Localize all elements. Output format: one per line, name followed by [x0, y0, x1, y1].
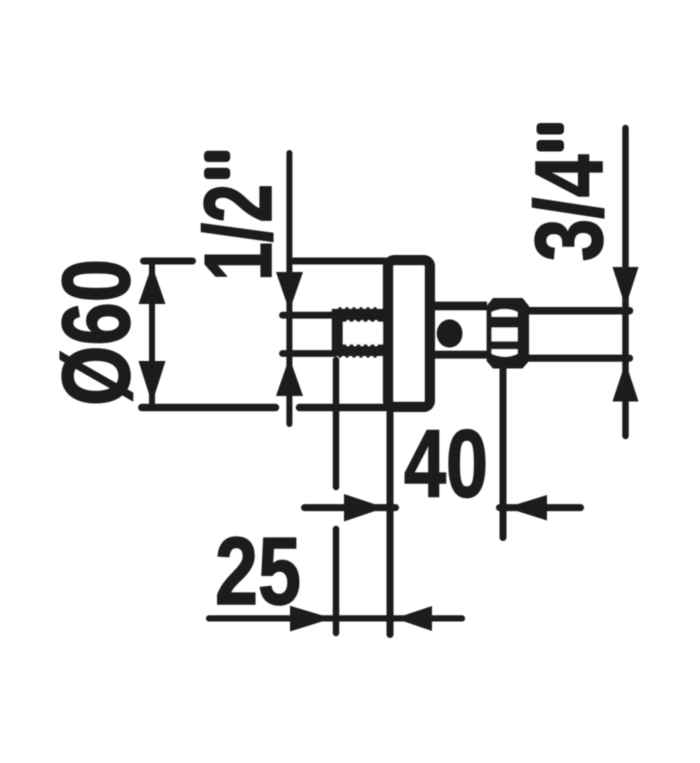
dim 40 extension line nut — [500, 369, 507, 538]
thread crest bumps — [338, 307, 377, 358]
svg-text:40: 40 — [404, 411, 488, 518]
dim 1/2" arrow down — [276, 272, 303, 311]
body shaft bottom line — [435, 351, 487, 359]
svg-text:Ø60: Ø60 — [43, 259, 150, 406]
dim 40 dimension line right — [500, 504, 581, 511]
dim 1/2" arrow up — [276, 358, 303, 397]
dim 1/2" dimension line — [286, 153, 292, 424]
dim 25 dimension line left — [209, 615, 462, 621]
label 3/4 inch ticks — [537, 123, 565, 135]
dim 40 arrow left — [506, 495, 547, 521]
dim Ø60 arrow down — [139, 361, 166, 404]
dim 1/2" extension line bottom — [283, 350, 336, 357]
dim 25 extension line pipe end seg2 — [333, 529, 340, 633]
dim Ø60 dimension line — [149, 263, 155, 405]
dim 1/2" extension line top — [283, 312, 336, 319]
dim Ø60 extension line top seg2 — [294, 258, 385, 265]
dim 40 extension line flange face — [387, 412, 394, 635]
svg-text:1/2: 1/2 — [185, 184, 292, 281]
outlet pipe top line 3/4" — [529, 307, 630, 315]
dim 40 arrow right — [344, 494, 385, 522]
label 1/2 inch ticks — [204, 151, 230, 162]
body shaft top line — [435, 302, 487, 311]
dim 40 dimension line left — [305, 504, 396, 511]
dim Ø60 extension line top seg1 — [144, 258, 193, 265]
svg-text:25: 25 — [215, 518, 301, 625]
outlet pipe bottom line — [529, 355, 630, 362]
svg-text:3/4: 3/4 — [516, 155, 623, 262]
fixing hole dot — [437, 319, 463, 347]
dim 25 extension line pipe end seg1 — [333, 360, 340, 487]
dim 3/4" dimension line — [622, 128, 629, 436]
dim 25 arrow right — [290, 606, 332, 632]
dim Ø60 arrow up — [139, 265, 166, 304]
threaded inlet pipe 1/2" — [332, 309, 383, 356]
wall flange — [388, 260, 430, 407]
nut — [487, 298, 529, 369]
dim Ø60 extension line bottom seg1 — [142, 404, 276, 412]
thread root bumps — [346, 320, 378, 346]
dim 3/4" arrow down — [613, 267, 639, 307]
dim Ø60 extension line bottom seg2 — [300, 404, 391, 412]
dim 25 arrow left — [395, 606, 432, 631]
dim 3/4" arrow up — [613, 362, 639, 402]
